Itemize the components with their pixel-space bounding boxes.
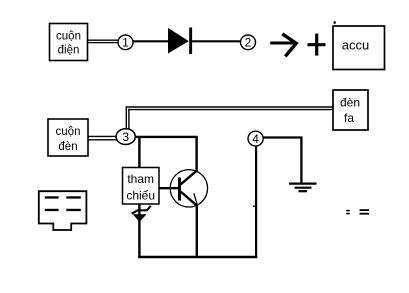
wire zener branch vertical xyxy=(138,204,140,258)
svg-text:tham: tham xyxy=(127,172,154,186)
svg-text:fa: fa xyxy=(344,111,354,125)
wire emitter vertical xyxy=(196,205,198,258)
wire double line box to node 1 xyxy=(88,40,119,42)
svg-text:accu: accu xyxy=(342,38,369,53)
wire double line box to node 3 xyxy=(88,136,117,139)
wire diode to node 2 xyxy=(192,40,241,42)
svg-text:3: 3 xyxy=(122,130,129,144)
svg-text:4: 4 xyxy=(252,132,259,146)
svg-text:cuộn: cuộn xyxy=(56,126,81,138)
node 3 xyxy=(116,129,135,145)
box accu xyxy=(333,26,385,70)
box đèn fa xyxy=(333,90,368,130)
dot speck near node 4 drop xyxy=(253,205,255,207)
wire double line node 3 riser (vertical) xyxy=(126,106,129,130)
svg-text:điện: điện xyxy=(58,44,80,56)
diode D1 xyxy=(168,28,192,55)
connector (regulator plug) xyxy=(39,191,87,230)
svg-text:1: 1 xyxy=(122,36,129,50)
node 4 xyxy=(248,131,263,146)
svg-text:2: 2 xyxy=(245,36,252,50)
wire bottom rail xyxy=(138,256,257,259)
box tham chiếu xyxy=(123,168,160,205)
plus sign xyxy=(308,34,326,56)
marks colon equals xyxy=(346,209,369,214)
ground xyxy=(289,184,317,192)
zener diode Z1 xyxy=(132,206,151,222)
box cuộn điện xyxy=(50,24,88,61)
wire node 4 drop vertical xyxy=(255,146,257,258)
wire double line node 3 to đèn fa (horizontal) xyxy=(126,107,333,110)
svg-text:cuộn: cuộn xyxy=(56,30,81,42)
svg-text:đèn: đèn xyxy=(58,141,77,153)
wire node 4 to ground xyxy=(263,138,303,183)
wire node 3 to collector xyxy=(135,136,198,138)
svg-text:chiếu: chiếu xyxy=(126,188,155,202)
dot above accu box xyxy=(334,21,336,23)
transistor Q1 xyxy=(170,170,207,207)
arrow symbol xyxy=(270,34,296,57)
wire base lead xyxy=(159,187,179,189)
svg-text:đèn: đèn xyxy=(340,95,360,109)
node 2 xyxy=(241,35,256,50)
box cuộn đèn xyxy=(48,119,88,156)
wire node 1 to diode xyxy=(133,40,169,42)
wire collector vertical xyxy=(195,137,197,171)
node 1 xyxy=(118,35,133,50)
wire branch down to tham chiếu xyxy=(138,137,140,168)
